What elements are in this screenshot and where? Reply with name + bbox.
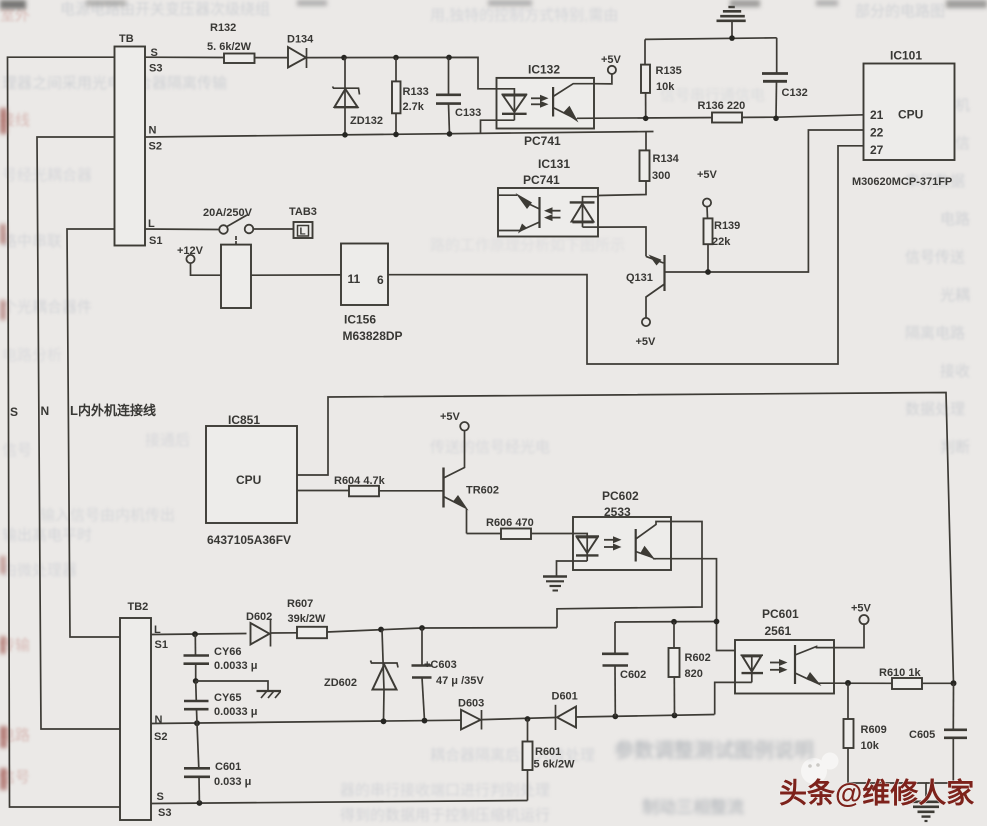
svg-text:N: N <box>41 404 50 418</box>
node dot ZD132 bottom <box>342 132 348 138</box>
svg-text:传送的信号经光电: 传送的信号经光电 <box>430 439 550 456</box>
resistor R609 <box>844 683 927 801</box>
svg-text:室外: 室外 <box>0 7 30 24</box>
svg-text:ZD132: ZD132 <box>350 115 383 127</box>
node dot CY66/CY65 junction <box>193 678 199 684</box>
svg-text:5 6k/2W: 5 6k/2W <box>534 759 576 771</box>
IC IC851 CPU <box>206 413 297 547</box>
terminal TAB3 <box>289 206 317 238</box>
svg-text:S: S <box>10 405 18 419</box>
resistor R139 <box>697 169 740 272</box>
svg-text:S3: S3 <box>158 807 171 819</box>
capacitor C132 <box>762 38 808 119</box>
svg-text:L: L <box>300 227 306 238</box>
node dot Q131 collector / R139 <box>705 269 711 275</box>
terminal block TB <box>115 33 163 247</box>
svg-text:0.0033 μ: 0.0033 μ <box>214 660 257 672</box>
node dot C133 top <box>446 55 452 61</box>
resistor R606 <box>467 517 574 539</box>
node dot ground rail <box>729 35 735 41</box>
svg-text:CY66: CY66 <box>214 646 242 658</box>
resistor R134 <box>598 132 680 196</box>
svg-text:2561: 2561 <box>765 624 792 638</box>
node dot R610 right <box>951 680 957 686</box>
svg-text:+5V: +5V <box>851 603 872 615</box>
svg-text:PC601: PC601 <box>762 607 799 621</box>
svg-text:22k: 22k <box>712 236 731 248</box>
wire N line TB2 to D603 <box>151 720 461 723</box>
svg-text:300: 300 <box>652 170 670 182</box>
svg-text:电路: 电路 <box>940 211 970 228</box>
svg-text:10k: 10k <box>656 81 675 93</box>
resistor R136 <box>698 100 746 123</box>
svg-text:信号传送: 信号传送 <box>905 249 965 266</box>
node dot C603 bottom <box>422 718 428 724</box>
svg-text:判断: 判断 <box>940 439 970 456</box>
svg-text:S1: S1 <box>155 639 168 651</box>
wire S rail to IC132 <box>307 57 497 88</box>
IC IC101 CPU <box>852 49 955 189</box>
svg-text:2.7k: 2.7k <box>403 101 425 113</box>
wire PC602 emitter to PC601 LED anode <box>671 559 743 656</box>
svg-text:C605: C605 <box>909 729 935 741</box>
node dot CY66 top <box>192 631 198 637</box>
svg-text:隔离电路: 隔离电路 <box>905 325 965 342</box>
ground top <box>717 7 746 38</box>
ground PC602 <box>543 577 567 591</box>
svg-text:+5V: +5V <box>697 169 718 181</box>
resistor R601 <box>523 719 576 801</box>
chassis ground stub <box>196 681 281 698</box>
svg-text:M63828DP: M63828DP <box>343 329 403 343</box>
wire L line TB2 to D602 <box>151 634 247 635</box>
node dot ZD602 top <box>378 627 384 633</box>
svg-text:R609: R609 <box>861 724 887 736</box>
svg-text:S: S <box>157 791 164 803</box>
svg-text:CPU: CPU <box>898 108 923 122</box>
svg-text:20A/250V: 20A/250V <box>203 207 253 219</box>
wire L line jog up to PC602 collector branch <box>422 627 557 629</box>
svg-text:器的串行接收端口进行判别处理: 器的串行接收端口进行判别处理 <box>340 782 550 799</box>
diode D134 <box>287 34 314 69</box>
optocoupler PC602 <box>557 489 672 576</box>
wire <box>482 718 556 720</box>
svg-text:6437105A36FV: 6437105A36FV <box>207 533 291 547</box>
svg-text:R135: R135 <box>656 65 682 77</box>
node dot R602 bottom <box>672 713 678 719</box>
node dot R135 bottom <box>643 116 649 122</box>
svg-text:21: 21 <box>870 108 884 122</box>
capacitor C605 <box>909 683 967 783</box>
zener diode ZD602 <box>324 630 398 722</box>
resistor R132 <box>207 22 255 63</box>
node dot C602 bottom <box>612 713 618 719</box>
optocoupler IC131 <box>498 157 598 237</box>
switch 20A/250V <box>145 207 294 240</box>
svg-text:TAB3: TAB3 <box>289 206 317 218</box>
svg-text:S2: S2 <box>154 731 167 743</box>
resistor R610 <box>879 667 954 689</box>
wire S rail top <box>145 56 224 58</box>
svg-text:TB: TB <box>119 33 134 45</box>
svg-text:R134: R134 <box>653 153 680 165</box>
svg-text:22: 22 <box>870 126 884 140</box>
svg-text:号经光耦合器: 号经光耦合器 <box>2 167 92 184</box>
svg-text:R133: R133 <box>403 86 429 98</box>
wire PC601 emitter node <box>834 682 892 684</box>
svg-text:+5V: +5V <box>636 336 657 348</box>
svg-text:数据处理: 数据处理 <box>905 401 965 418</box>
svg-text:39k/2W: 39k/2W <box>288 613 327 625</box>
svg-text:参数调整测试图例说明: 参数调整测试图例说明 <box>614 738 814 762</box>
wire L left loop from TB to TB2 <box>67 229 120 637</box>
svg-text:TR602: TR602 <box>466 485 499 497</box>
svg-text:R604 4.7k: R604 4.7k <box>334 475 386 487</box>
wire <box>255 57 289 59</box>
svg-text:2533: 2533 <box>604 505 631 519</box>
optocoupler IC132 <box>481 63 595 149</box>
svg-text:ZD602: ZD602 <box>324 677 357 689</box>
svg-text:个光耦合器件: 个光耦合器件 <box>2 299 92 316</box>
node dot ZD132 top <box>341 55 347 61</box>
svg-text:PC741: PC741 <box>523 173 560 187</box>
svg-text:+5V: +5V <box>440 411 461 423</box>
diode D601 <box>552 691 578 731</box>
svg-text:IC101: IC101 <box>890 49 922 63</box>
capacitor C602 <box>602 622 646 716</box>
svg-text:S3: S3 <box>149 63 162 75</box>
svg-text:0.0033 μ: 0.0033 μ <box>214 706 257 718</box>
svg-text:27: 27 <box>870 143 884 157</box>
ground bottom right <box>908 802 944 821</box>
wire top ground rail <box>645 38 777 40</box>
node dot rail R602 top <box>671 619 677 625</box>
svg-text:R132: R132 <box>210 22 236 34</box>
svg-text:5. 6k/2W: 5. 6k/2W <box>207 41 252 53</box>
svg-text:R610 1k: R610 1k <box>879 667 921 679</box>
svg-text:IC131: IC131 <box>538 157 570 171</box>
svg-text:电路分析: 电路分析 <box>2 347 62 364</box>
wire N left loop from TB to TB2 <box>37 137 120 729</box>
svg-text:D601: D601 <box>552 691 578 703</box>
svg-text:L内外机连接线: L内外机连接线 <box>70 403 156 418</box>
node dot emitter/R609 <box>845 680 851 686</box>
svg-text:得到的数据用于控制压缩机运行: 得到的数据用于控制压缩机运行 <box>340 807 550 824</box>
svg-text:光耦: 光耦 <box>940 287 970 304</box>
wire IC131 LED cathode to Q131 <box>598 227 646 256</box>
power +5V at IC132 <box>594 54 622 84</box>
svg-text:R607: R607 <box>287 598 313 610</box>
optocoupler PC601 <box>735 607 834 694</box>
white ghost watermark <box>801 753 839 785</box>
svg-text:6: 6 <box>377 273 384 287</box>
relay coil box <box>221 241 251 308</box>
wire C602/R602 top rail <box>615 621 717 624</box>
svg-text:CPU: CPU <box>236 473 261 487</box>
svg-text:+5V: +5V <box>601 54 622 66</box>
power +5V at PC601 <box>834 603 872 648</box>
wire S left loop from TB to TB2 <box>8 57 121 807</box>
svg-text:路中串联: 路中串联 <box>2 233 62 250</box>
svg-text:R606 470: R606 470 <box>486 517 534 529</box>
wire PC602 collector to L-line <box>557 522 702 628</box>
wire main node to IC101 pin21 <box>577 115 864 119</box>
wire IC851 top output loop to right rail <box>297 393 954 684</box>
svg-text:C132: C132 <box>782 87 808 99</box>
svg-text:IC132: IC132 <box>528 63 560 77</box>
svg-text:0.033 μ: 0.033 μ <box>214 776 251 788</box>
svg-text:信号: 信号 <box>2 442 32 459</box>
svg-text:47 μ /35V: 47 μ /35V <box>436 675 484 687</box>
svg-text:接收: 接收 <box>940 363 970 380</box>
svg-text:+C603: +C603 <box>424 659 457 671</box>
node dot R133 top <box>393 55 399 61</box>
svg-text:C133: C133 <box>455 107 481 119</box>
diode D602 <box>246 611 272 647</box>
wire N line right portion <box>576 715 715 718</box>
svg-text:CY65: CY65 <box>214 692 242 704</box>
svg-text:S2: S2 <box>149 141 162 153</box>
resistor R133 <box>392 58 429 135</box>
svg-text:路的工作原理分析如下图所示: 路的工作原理分析如下图所示 <box>430 237 625 254</box>
node dot CY65 bottom <box>194 720 200 726</box>
capacitor C133 <box>436 57 481 134</box>
capacitor C603 polarized <box>412 628 485 721</box>
svg-text:输入信号由内机传出: 输入信号由内机传出 <box>40 507 175 524</box>
svg-text:IC851: IC851 <box>228 413 260 427</box>
node dot ZD602 bottom <box>381 718 387 724</box>
node dot R133 bottom <box>393 132 399 138</box>
wire IC101 pin27 to IC156 pin6 <box>388 146 864 364</box>
svg-text:D602: D602 <box>246 611 272 623</box>
svg-text:TB2: TB2 <box>128 601 149 613</box>
svg-text:R601: R601 <box>535 746 561 758</box>
svg-text:接通后: 接通后 <box>145 432 190 449</box>
svg-text:PC741: PC741 <box>524 134 561 148</box>
node dot rail PC602 emitter <box>714 619 720 625</box>
svg-text:D603: D603 <box>458 698 484 710</box>
svg-text:输出高电平时: 输出高电平时 <box>2 527 92 544</box>
svg-text:制动三相整流: 制动三相整流 <box>642 797 744 817</box>
svg-text:10k: 10k <box>861 740 880 752</box>
svg-text:11: 11 <box>348 272 361 286</box>
wire N rail top <box>145 132 654 138</box>
svg-text:部分的电路图: 部分的电路图 <box>855 3 945 20</box>
power +12V <box>177 245 221 275</box>
terminal block TB2 <box>120 601 171 820</box>
resistor R607 <box>271 598 423 638</box>
svg-text:头条@维修人家: 头条@维修人家 <box>779 777 974 809</box>
diode D603 <box>458 698 484 730</box>
node dot C601 bottom <box>197 800 203 806</box>
svg-text:PC602: PC602 <box>602 489 639 503</box>
wire PC601 LED cathode down <box>715 682 735 714</box>
wire S line TB2 to R601 <box>151 801 528 804</box>
node dot C132 bottom <box>773 116 779 122</box>
svg-text:N: N <box>149 125 157 137</box>
resistor R604 <box>297 475 444 496</box>
node dot R601 top <box>525 716 531 722</box>
wire IC101 pin22 to Q131 collector <box>708 130 864 272</box>
svg-text:R602: R602 <box>685 652 711 664</box>
svg-text:C602: C602 <box>620 669 646 681</box>
capacitor CY66 <box>184 634 258 681</box>
node dot C133 bottom <box>447 131 453 137</box>
svg-text:S1: S1 <box>149 235 162 247</box>
svg-text:Q131: Q131 <box>626 272 653 284</box>
svg-text:用,独特的控制方式特别,需由: 用,独特的控制方式特别,需由 <box>430 7 618 24</box>
capacitor CY65 <box>184 681 257 723</box>
transistor Q131 <box>626 255 708 349</box>
svg-text:R136 220: R136 220 <box>698 100 746 112</box>
svg-text:C601: C601 <box>215 761 241 773</box>
svg-text:820: 820 <box>685 668 703 680</box>
transistor TR602 <box>440 411 499 534</box>
node dot C603 top <box>419 625 425 631</box>
svg-text:R139: R139 <box>714 220 740 232</box>
capacitor C601 <box>184 723 251 803</box>
resistor R135 <box>641 39 682 118</box>
svg-text:D134: D134 <box>287 34 314 46</box>
svg-text:IC156: IC156 <box>344 313 376 327</box>
resistor R602 <box>669 622 711 716</box>
IC IC156 <box>251 244 403 344</box>
zener diode ZD132 <box>333 58 384 135</box>
svg-text:M30620MCP-371FP: M30620MCP-371FP <box>852 176 952 188</box>
